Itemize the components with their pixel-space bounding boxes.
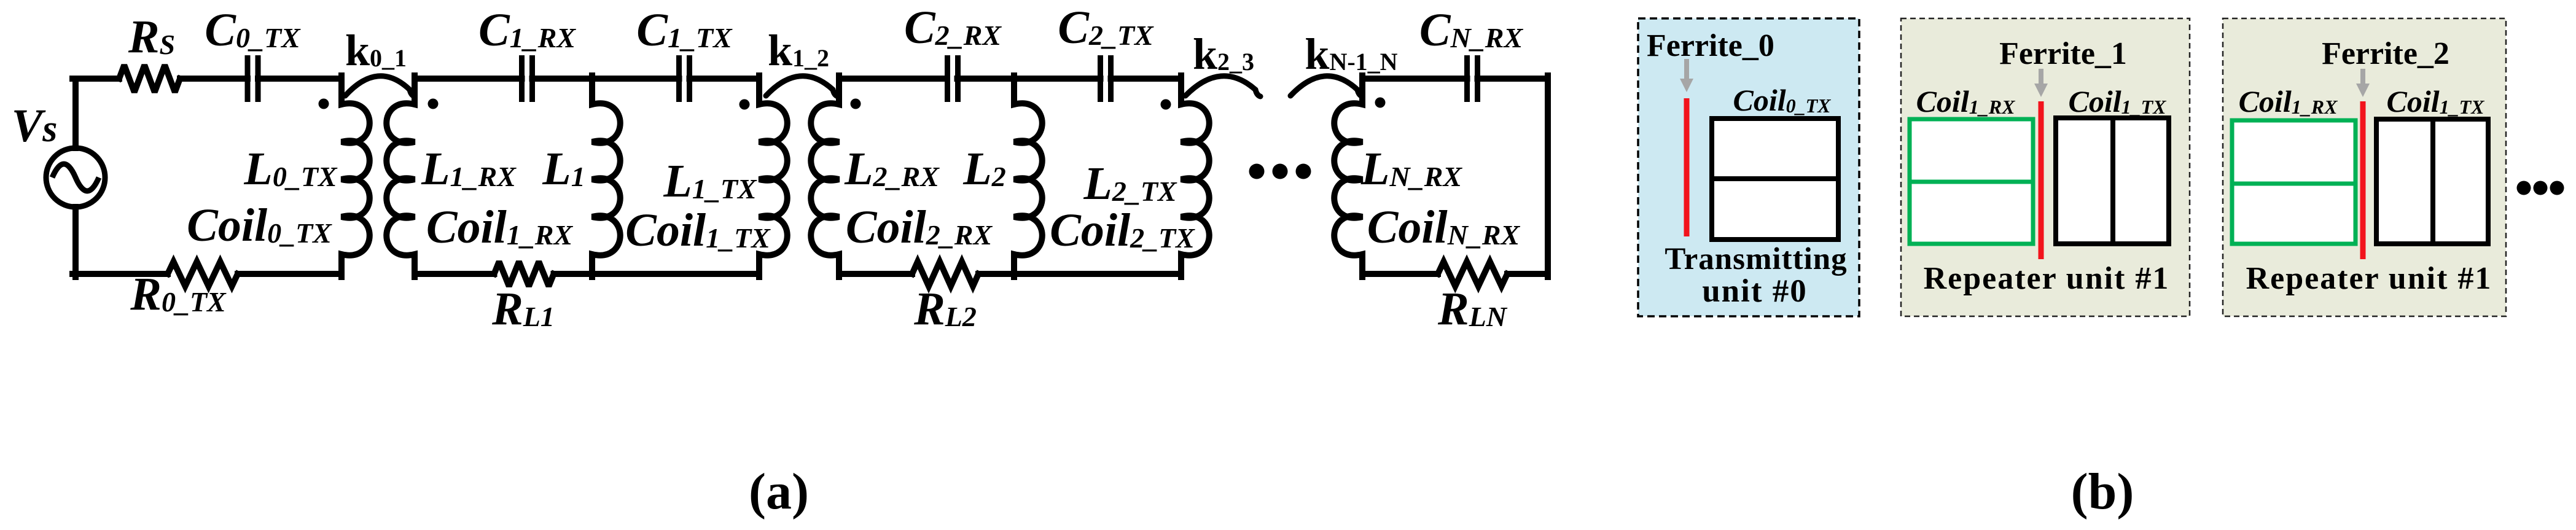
svg-text:C0_TX: C0_TX xyxy=(205,4,301,56)
svg-text:C2_RX: C2_RX xyxy=(904,2,1002,53)
svg-text:L1_TX: L1_TX xyxy=(663,155,757,207)
svg-text:CN_RX: CN_RX xyxy=(1419,4,1524,56)
svg-text:Vs: Vs xyxy=(12,100,58,152)
svg-text:(b): (b) xyxy=(2071,463,2134,520)
svg-text:Coil1_RX: Coil1_RX xyxy=(426,201,574,253)
svg-text:L1_RX: L1_RX xyxy=(421,143,517,195)
svg-text:k0_1: k0_1 xyxy=(345,26,407,75)
svg-text:Ferrite_0: Ferrite_0 xyxy=(1647,28,1774,63)
svg-text:RS: RS xyxy=(128,11,175,63)
svg-text:Coil2_RX: Coil2_RX xyxy=(846,201,993,253)
svg-text:k2_3: k2_3 xyxy=(1193,29,1254,79)
svg-text:L0_TX: L0_TX xyxy=(243,143,338,195)
svg-text:unit #0: unit #0 xyxy=(1702,273,1808,309)
svg-text:C1_TX: C1_TX xyxy=(636,4,733,56)
svg-text:RL1: RL1 xyxy=(491,283,555,335)
svg-text:Ferrite_1: Ferrite_1 xyxy=(1999,36,2127,71)
svg-text:CoilN_RX: CoilN_RX xyxy=(1367,201,1521,253)
svg-text:kN-1_N: kN-1_N xyxy=(1305,29,1397,79)
svg-text:Coil2_TX: Coil2_TX xyxy=(1050,205,1195,256)
svg-text:Repeater unit #1: Repeater unit #1 xyxy=(2246,261,2492,296)
svg-text:L1: L1 xyxy=(542,143,585,195)
svg-text:(a): (a) xyxy=(749,463,809,520)
svg-text:Transmitting: Transmitting xyxy=(1665,242,1847,276)
svg-text:Coil1_TX: Coil1_TX xyxy=(625,205,771,256)
svg-text:C1_RX: C1_RX xyxy=(478,4,576,56)
svg-text:L2_TX: L2_TX xyxy=(1083,158,1177,209)
svg-text:Coil0_TX: Coil0_TX xyxy=(187,200,332,251)
svg-text:L2_RX: L2_RX xyxy=(844,143,940,195)
svg-text:C2_TX: C2_TX xyxy=(1058,2,1154,53)
svg-text:RL2: RL2 xyxy=(913,283,977,335)
svg-text:k1_2: k1_2 xyxy=(768,26,829,75)
svg-text:L2: L2 xyxy=(962,143,1005,195)
svg-text:Ferrite_2: Ferrite_2 xyxy=(2322,36,2449,71)
svg-text:LN_RX: LN_RX xyxy=(1360,143,1462,195)
svg-text:RLN: RLN xyxy=(1437,283,1508,335)
svg-text:Repeater unit #1: Repeater unit #1 xyxy=(1924,261,2170,296)
